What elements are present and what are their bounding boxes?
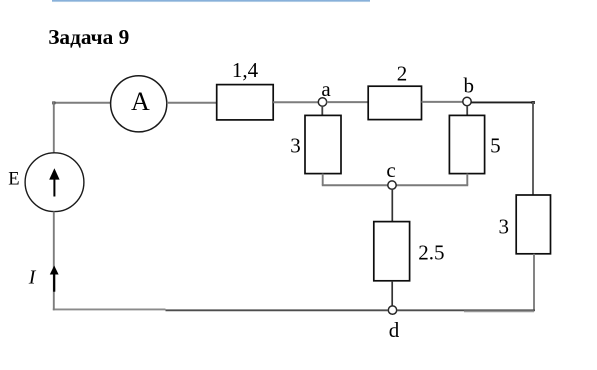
svg-text:5: 5 xyxy=(490,134,501,158)
resistor R2.5 (vertical) xyxy=(374,222,410,281)
wire: bottom horizontal right of node d xyxy=(397,309,535,311)
svg-text:b: b xyxy=(464,73,475,97)
wire: resistor 2 to node b xyxy=(422,101,464,103)
wire: doubled grey overlap segment near bottom-right xyxy=(464,310,534,312)
svg-text:A: A xyxy=(131,87,150,116)
decorative top blue rule xyxy=(52,0,370,2)
wire: horizontal connector through node c xyxy=(322,184,468,186)
wire: source E down to bottom-left corner xyxy=(53,212,55,311)
wire joint cap at top-left corner xyxy=(52,101,55,104)
wire: node a to resistor 2 xyxy=(327,101,369,103)
node d xyxy=(388,306,396,314)
svg-text:2: 2 xyxy=(397,62,408,86)
wire joint cap at top-right corner xyxy=(532,101,535,104)
svg-text:3: 3 xyxy=(290,133,301,157)
svg-text:2.5: 2.5 xyxy=(418,241,444,265)
svg-text:c: c xyxy=(386,158,395,182)
wire: stub below resistor 5 xyxy=(466,174,468,186)
node c xyxy=(388,181,396,189)
source E internal arrow xyxy=(49,168,59,196)
wire: right vertical below resistor to bottom corner xyxy=(533,254,535,311)
svg-text:3: 3 xyxy=(499,215,510,239)
resistor R3 (left vertical) xyxy=(305,115,341,173)
svg-text:a: a xyxy=(321,77,331,101)
wire: stub below resistor 3 xyxy=(322,174,324,186)
wire: bottom horizontal left light segment xyxy=(53,308,166,310)
wire: node b to top-right corner xyxy=(471,101,534,103)
svg-text:Задача 9: Задача 9 xyxy=(48,25,129,49)
resistor R3 (right vertical) xyxy=(516,195,550,254)
wire: top-left horizontal from corner to ammeter xyxy=(53,102,111,104)
current I arrow on left wire xyxy=(50,266,59,292)
wire: stub from node b down to resistor 5 xyxy=(466,106,468,116)
wire: node c down to resistor 2.5 xyxy=(391,189,393,222)
resistor R 1,4 xyxy=(217,85,274,120)
wire: resistor 2.5 down to node d xyxy=(391,281,393,306)
svg-text:I: I xyxy=(28,266,37,288)
node a xyxy=(318,98,326,106)
resistor R5 (vertical) xyxy=(449,115,484,173)
svg-text:d: d xyxy=(389,318,400,342)
wire: left vertical from top corner down to source E xyxy=(53,102,55,153)
svg-text:E: E xyxy=(8,170,19,190)
node b xyxy=(463,97,471,105)
ammeter A xyxy=(111,76,167,132)
resistor R2 (top) xyxy=(368,86,421,119)
svg-text:1,4: 1,4 xyxy=(232,58,259,82)
wire: bottom horizontal to node d xyxy=(166,309,389,311)
wire: right vertical from corner down to resistor 3 xyxy=(532,102,534,196)
wire: stub from node a down to resistor 3 xyxy=(321,106,323,116)
source E circle xyxy=(25,153,84,212)
wire: ammeter to resistor 1,4 xyxy=(167,102,217,104)
wire: resistor 1,4 to node a xyxy=(273,101,318,103)
